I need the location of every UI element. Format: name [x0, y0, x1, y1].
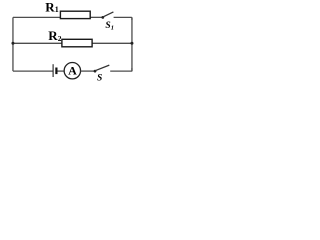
wire S1 to top-right corner	[114, 17, 132, 20]
wire R1 to switch S1	[90, 16, 103, 18]
wire left vertical	[12, 17, 14, 71]
resistor R2	[62, 39, 92, 47]
switch S1 pivot dot	[101, 16, 104, 19]
ammeter A body	[64, 62, 80, 78]
resistor R1	[60, 11, 90, 18]
wire middle-left segment	[13, 42, 62, 44]
svg-text:S: S	[97, 74, 102, 84]
wire middle-right segment	[92, 42, 132, 44]
battery cell short plate	[55, 68, 57, 75]
svg-text:A: A	[68, 63, 77, 77]
wire S to bottom-right corner	[110, 68, 132, 71]
battery cell long plate	[52, 64, 54, 77]
switch S pivot dot	[94, 70, 97, 73]
switch S blade	[95, 65, 109, 71]
wire battery to ammeter	[58, 70, 65, 72]
wire bottom-left segment	[13, 70, 53, 72]
switch S1 blade	[103, 12, 113, 17]
node junction right	[130, 42, 133, 45]
wire top-left segment	[13, 16, 61, 18]
svg-text:R2: R2	[48, 28, 61, 43]
svg-text:R1: R1	[45, 0, 58, 14]
wire right vertical	[131, 18, 133, 71]
svg-text:S1: S1	[105, 21, 114, 31]
wire ammeter to switch S	[81, 70, 95, 72]
node junction left	[11, 42, 14, 45]
